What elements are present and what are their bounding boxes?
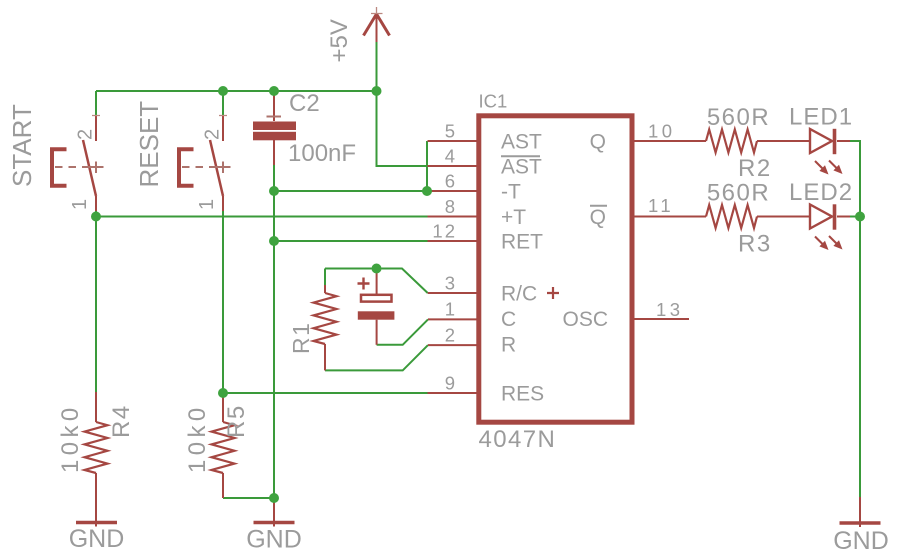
svg-text:+T: +T: [501, 206, 526, 229]
svg-text:1: 1: [69, 199, 91, 210]
svg-text:GND: GND: [246, 526, 302, 554]
svg-text:LED2: LED2: [789, 179, 853, 206]
svg-text:6: 6: [445, 171, 455, 192]
svg-text:RET: RET: [501, 231, 543, 254]
svg-text:10k0: 10k0: [57, 403, 84, 473]
svg-text:5: 5: [445, 121, 455, 142]
svg-text:4: 4: [445, 146, 455, 167]
svg-text:R1: R1: [288, 322, 314, 354]
svg-text:2: 2: [202, 129, 224, 140]
svg-text:C: C: [501, 308, 516, 331]
svg-text:11: 11: [648, 195, 674, 216]
svg-text:R2: R2: [738, 155, 772, 182]
svg-text:START: START: [7, 104, 37, 187]
svg-text:+5V: +5V: [326, 19, 353, 62]
svg-text:8: 8: [445, 196, 455, 217]
svg-text:IC1: IC1: [479, 91, 508, 112]
svg-text:2: 2: [445, 325, 455, 346]
svg-text:1: 1: [445, 299, 455, 320]
svg-text:13: 13: [656, 299, 684, 320]
svg-text:10k0: 10k0: [184, 403, 211, 473]
svg-text:GND: GND: [69, 525, 125, 553]
svg-text:R5: R5: [223, 404, 250, 438]
svg-text:LED1: LED1: [789, 104, 853, 131]
svg-text:3: 3: [445, 273, 455, 294]
svg-text:RES: RES: [501, 383, 544, 406]
svg-text:1: 1: [196, 199, 218, 210]
svg-text:GND: GND: [833, 527, 889, 555]
svg-text:R3: R3: [738, 231, 772, 258]
svg-text:OSC: OSC: [562, 308, 608, 331]
svg-text:4047N: 4047N: [479, 426, 557, 453]
svg-text:C2: C2: [289, 90, 320, 117]
svg-text:560R: 560R: [707, 104, 770, 131]
svg-text:-T: -T: [501, 181, 521, 204]
svg-text:Q: Q: [590, 206, 606, 229]
svg-text:100nF: 100nF: [288, 140, 356, 167]
svg-text:R4: R4: [108, 404, 135, 438]
svg-text:R/C: R/C: [501, 283, 537, 306]
svg-text:R: R: [501, 334, 516, 357]
svg-text:AST: AST: [501, 131, 542, 154]
svg-text:AST: AST: [501, 156, 542, 179]
svg-text:2: 2: [75, 129, 97, 140]
svg-text:560R: 560R: [707, 180, 770, 207]
svg-text:12: 12: [432, 221, 457, 242]
svg-text:9: 9: [445, 373, 455, 394]
svg-text:10: 10: [648, 121, 676, 142]
svg-text:Q: Q: [590, 131, 606, 154]
svg-text:RESET: RESET: [134, 101, 164, 188]
